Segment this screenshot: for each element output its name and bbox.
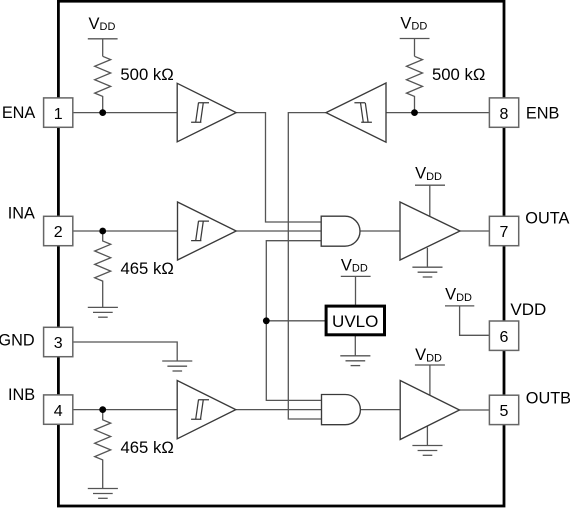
wire AND B output to driver B [360,409,400,411]
wire INB buffer output to AND B middle input [236,409,322,411]
svg-text:465 kΩ: 465 kΩ [121,438,174,457]
pin 7 box [489,216,518,245]
svg-text:500 kΩ: 500 kΩ [120,65,173,84]
vdd symbol ENA pull-up [88,39,118,57]
node INB pull-down junction [99,406,106,413]
wire driver A output to pin7 [460,230,489,232]
label VDD driver A [415,165,442,184]
wire pin3 GND to ground [73,342,177,361]
wire pin4 INB to buffer [73,409,177,411]
vdd symbol UVLO [341,276,371,304]
wire pin1 ENA to buffer [73,112,177,114]
label VDD ENA pull-up [89,15,116,33]
UVLO block [326,306,384,335]
pin 5 number [500,403,509,420]
pin 1 number [54,106,63,123]
svg-text:INA: INA [8,204,35,222]
pin 8 number [500,106,509,123]
output driver A [400,202,460,260]
label VDD ENB pull-up [400,14,427,32]
label VDD [510,300,546,319]
ground GND pin [162,361,192,371]
label INB [8,386,35,404]
wire ENB buffer output to AND B bottom input [288,113,326,419]
schmitt buffer ENA [177,83,236,142]
wire AND A output to driver A [360,230,400,232]
label VDD driver B [415,346,442,364]
svg-text:OUTA: OUTA [525,210,569,228]
value 500 kOhm ENB [432,65,485,84]
node UVLO tee junction [263,317,270,324]
pin 6 number [500,329,509,346]
svg-text:2: 2 [54,224,63,241]
pin 7 number [500,224,509,241]
resistor 500k ENA pull-up [95,56,111,112]
wire VDD symbol to pin6 [460,306,490,335]
value 465 kOhm INB [121,438,174,457]
svg-text:INB: INB [8,386,35,404]
node ENA pull-up junction [99,109,106,116]
svg-text:VDD: VDD [510,300,546,319]
schmitt buffer INB [177,381,236,439]
svg-text:1: 1 [54,106,63,123]
pin 1 box [44,98,73,127]
wire driver B output to pin5 [460,409,490,411]
schmitt buffer ENB [326,83,386,142]
svg-text:7: 7 [500,224,509,241]
hysteresis glyph INA [191,221,209,241]
svg-text:UVLO: UVLO [332,312,378,331]
label OUTA [525,210,569,228]
pin 6 box [489,321,518,350]
ground UVLO [340,336,370,366]
vdd symbol ENB pull-up [400,39,430,57]
pin 8 box [489,98,518,127]
pin 5 box [489,395,518,424]
label ENB [526,105,559,123]
svg-text:OUTB: OUTB [526,390,570,408]
label VDD UVLO [341,257,368,275]
label ENA [2,104,36,122]
hysteresis glyph ENA [191,103,209,123]
resistor value labels [120,65,485,457]
pin 3 box [44,327,73,356]
value 465 kOhm INA [121,259,174,278]
value 500 kOhm ENA [120,65,173,84]
ground driver A [412,248,442,277]
IC outline border [58,1,504,506]
pin 4 number [54,403,63,420]
label OUTB [526,390,570,408]
hysteresis glyph ENB [354,103,372,123]
pin 2 number [54,224,63,241]
hysteresis glyph INB [191,400,209,420]
svg-text:5: 5 [500,403,509,420]
and gate A [321,216,360,246]
vdd symbol driver A [415,185,445,216]
ground INB resistor [88,489,118,499]
resistor 465k INB pull-down [95,410,111,489]
node INA pull-down junction [99,228,106,235]
pin 3 number [54,335,63,352]
svg-text:465 kΩ: 465 kΩ [121,259,174,278]
svg-text:ENA: ENA [2,104,36,122]
wire ENB buffer to pin8 [386,112,489,114]
vdd symbol pin6 [445,305,474,307]
ground INA resistor [88,307,118,317]
pin name labels [0,104,570,408]
svg-text:4: 4 [54,403,63,420]
output driver B [400,381,459,440]
label GND [0,332,35,350]
ground driver B [412,426,442,455]
label VDD pin6 [445,286,472,305]
wire UVLO net vertical to both AND gates [266,241,321,401]
vdd symbol driver B [415,365,445,395]
svg-text:500 kΩ: 500 kΩ [432,65,485,84]
wire INA buffer output to AND A middle input [236,230,321,232]
svg-text:GND: GND [0,332,35,350]
resistor 465k INA pull-down [95,231,111,307]
wire UVLO output to net [266,320,326,322]
pin 4 box [44,395,73,424]
node ENB pull-up junction [411,109,418,116]
svg-text:ENB: ENB [526,105,559,123]
wire pin2 INA to buffer [73,230,178,232]
pin 2 box [44,216,73,245]
svg-text:3: 3 [54,335,63,352]
VDD supply labels [89,14,473,364]
svg-text:8: 8 [500,106,509,123]
pin boxes [44,98,519,425]
wire ENA buffer output to AND A top input [236,113,321,222]
resistor 500k ENB pull-up [407,56,423,112]
and gate B [322,395,361,425]
schmitt buffer INA [178,202,237,260]
label INA [8,204,35,222]
svg-text:6: 6 [500,329,509,346]
